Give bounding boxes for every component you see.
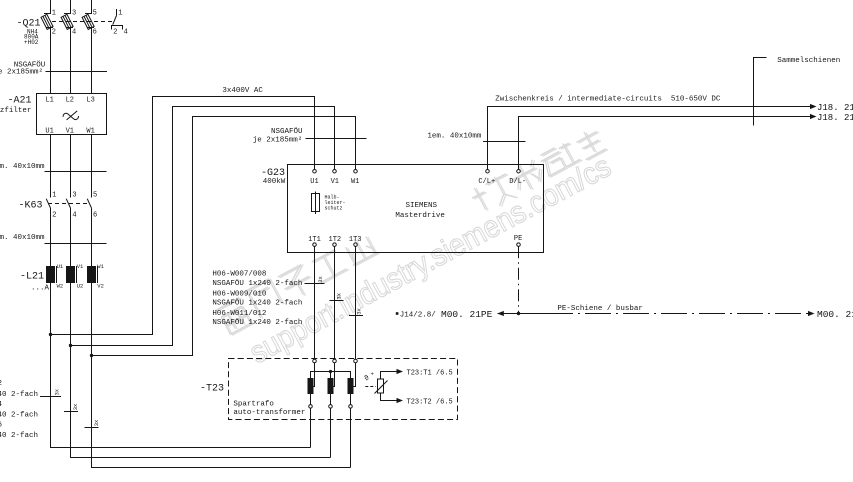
busbar marker 40x10 lower xyxy=(0,234,107,244)
T23 bottom terminal 3 xyxy=(349,405,353,468)
G23 terminal W1 xyxy=(351,169,359,185)
svg-text:1: 1 xyxy=(118,9,122,17)
svg-text:H06-W011/012: H06-W011/012 xyxy=(212,310,266,318)
wire phase L1 top entry xyxy=(50,0,52,14)
wire DC C/L+ to J18 xyxy=(488,107,811,170)
arrow J18 line1 xyxy=(810,104,817,109)
wire L1 down to bottom run xyxy=(51,335,311,448)
svg-text:2: 2 xyxy=(52,212,56,220)
svg-text:W1: W1 xyxy=(86,127,94,135)
wire loop phase 3 xyxy=(92,117,356,356)
cable tick left 2 xyxy=(64,403,79,412)
svg-text:-L21: -L21 xyxy=(20,271,44,282)
Q21 rating label xyxy=(24,29,39,46)
K63 linkage dashed line xyxy=(48,203,89,205)
svg-text:3x: 3x xyxy=(356,307,363,314)
svg-text:3: 3 xyxy=(72,192,76,200)
wire PE to J14 arrow xyxy=(497,311,518,316)
svg-text:Zwischenkreis / intermediate-c: Zwischenkreis / intermediate-circuits 51… xyxy=(495,95,721,103)
wire phase L2 top entry xyxy=(70,0,72,14)
svg-text:4: 4 xyxy=(72,28,76,36)
K63 pin labels xyxy=(52,192,97,220)
transformer T23 dashed box xyxy=(229,359,458,420)
junction node L3 xyxy=(90,354,93,357)
busbar marker DC 40x10 xyxy=(427,133,525,142)
fuse text Halbleiterschutz xyxy=(325,195,346,212)
arrow J18 line2 xyxy=(810,114,817,119)
svg-text:support.industry.siemens.com/c: support.industry.siemens.com/cs xyxy=(244,149,617,371)
wire PE busbar dash-dot xyxy=(519,313,548,315)
G23 terminal D/L- xyxy=(509,169,526,185)
svg-text:400kW: 400kW xyxy=(263,178,286,186)
thermistor bottom lead xyxy=(381,393,404,403)
svg-text:H06-W009/010: H06-W009/010 xyxy=(212,291,267,299)
svg-text:H06-W007/008: H06-W007/008 xyxy=(212,271,266,279)
svg-text:5: 5 xyxy=(93,9,97,17)
T23 top terminal 1 xyxy=(313,359,317,363)
contactor K63 pole 1 xyxy=(46,199,50,266)
wire phase L3 top entry xyxy=(91,0,93,14)
svg-text:auto-transformer: auto-transformer xyxy=(233,409,305,417)
svg-text:4: 4 xyxy=(72,212,76,220)
junction node L1 xyxy=(49,333,52,336)
wire L1 A21 to K63 xyxy=(50,135,52,198)
reactor L21 winding 2 xyxy=(66,266,77,346)
Q21 pin labels xyxy=(52,9,128,36)
label Spartrafo xyxy=(233,401,305,417)
svg-text:H06-W003/004: H06-W003/004 xyxy=(0,401,3,409)
T23 bottom terminal 1 xyxy=(309,405,313,448)
wire 1T3 to T23 xyxy=(355,246,357,359)
fuse-switch Q21 pole 1 xyxy=(41,14,53,94)
G23 terminal U1 xyxy=(310,169,318,185)
svg-text:M00. 21PE: M00. 21PE xyxy=(441,309,493,320)
T23 winding 2 top stub xyxy=(330,372,332,379)
cable label W003/004 clipped xyxy=(0,401,38,419)
svg-text:3x: 3x xyxy=(336,292,343,299)
watermark latin line xyxy=(244,149,617,371)
svg-text:je 2x185mm²: je 2x185mm² xyxy=(0,68,43,77)
T23 top terminal 3 xyxy=(354,359,358,363)
svg-text:+H02: +H02 xyxy=(24,39,39,46)
svg-text:3x: 3x xyxy=(54,388,61,395)
svg-text:J14/2.8/: J14/2.8/ xyxy=(400,311,437,319)
svg-text:H06-W005/006: H06-W005/006 xyxy=(0,422,3,430)
svg-text:Masterdrive: Masterdrive xyxy=(395,212,445,220)
svg-text:1T1: 1T1 xyxy=(308,236,321,244)
svg-text:3x: 3x xyxy=(93,419,100,426)
svg-text:je 2x185mm²: je 2x185mm² xyxy=(253,136,303,145)
junction node L2 xyxy=(69,344,72,347)
contactor K63 pole 3 xyxy=(87,199,91,266)
svg-text:3x400V AC: 3x400V AC xyxy=(222,87,263,95)
svg-text:J18. 21: J18. 21 xyxy=(817,103,853,113)
A21 terminal labels xyxy=(45,96,94,135)
T23 bottom terminal 2 xyxy=(329,405,333,458)
svg-text:1: 1 xyxy=(52,192,56,200)
fuse-switch Q21 pole 3 xyxy=(82,14,94,94)
svg-text:1em. 40x10mm: 1em. 40x10mm xyxy=(427,133,482,141)
svg-text:NSGAFÖU 1x240 2-fach: NSGAFÖU 1x240 2-fach xyxy=(212,299,302,308)
reactor L21 winding 1 xyxy=(46,266,57,335)
cable marker NSGAFOeU je 2x185 mid xyxy=(253,127,367,144)
wire L3 down to bottom run xyxy=(92,356,351,468)
svg-text:1em. 40x10mm: 1em. 40x10mm xyxy=(0,234,45,242)
svg-text:Netzfilter: Netzfilter xyxy=(0,107,31,115)
cable label W001/002 clipped xyxy=(0,380,38,399)
svg-text:2: 2 xyxy=(52,28,56,36)
watermark cjk line xyxy=(214,109,608,350)
svg-text:W2: W2 xyxy=(57,283,64,290)
svg-text:-K63: -K63 xyxy=(19,200,43,211)
svg-text:NSGAFÖU: NSGAFÖU xyxy=(271,127,303,136)
svg-text:Spartrafo: Spartrafo xyxy=(233,401,274,409)
G23 terminal V1 xyxy=(331,169,339,185)
Q21 linkage dashed line xyxy=(52,21,112,23)
svg-text:H06-W001/002: H06-W001/002 xyxy=(0,380,2,388)
svg-text:V1: V1 xyxy=(66,127,74,135)
cable marker NSGAFOeU 2x185 xyxy=(0,60,107,76)
wire DC D/L- to J18 xyxy=(519,117,811,170)
svg-text:Sammelschienen: Sammelschienen xyxy=(777,57,840,65)
svg-text:1em. 40x10mm: 1em. 40x10mm xyxy=(0,163,45,171)
svg-text:V2: V2 xyxy=(97,283,104,290)
cable tick left 1 xyxy=(40,388,61,396)
svg-text:U1: U1 xyxy=(45,127,53,135)
svg-text:NSGAFÖU 1x240 2-fach: NSGAFÖU 1x240 2-fach xyxy=(0,411,38,420)
T23 top terminal 2 xyxy=(333,359,337,363)
G23 terminal PE xyxy=(514,235,522,246)
svg-text:-T23: -T23 xyxy=(200,383,224,394)
svg-text:U2: U2 xyxy=(77,283,84,290)
svg-text:NSGAFÖU 1x240 2-fach: NSGAFÖU 1x240 2-fach xyxy=(212,318,302,327)
svg-text:1T3: 1T3 xyxy=(349,236,362,244)
svg-text:M00. 21: M00. 21 xyxy=(817,309,853,320)
svg-text:1T2: 1T2 xyxy=(329,236,342,244)
cable tick mid 3 xyxy=(349,307,363,315)
svg-text:C/L+: C/L+ xyxy=(478,178,495,186)
svg-text:NSGAFÖU 1x240 2-fach: NSGAFÖU 1x240 2-fach xyxy=(0,390,38,399)
converter G23 box xyxy=(288,165,544,253)
svg-text:4: 4 xyxy=(124,28,128,36)
svg-text:D/L-: D/L- xyxy=(509,178,526,186)
Q21 auxiliary contact xyxy=(112,9,123,30)
G23 semiconductor fuse symbol xyxy=(312,192,320,215)
thermistor body xyxy=(375,379,388,394)
svg-text:W1: W1 xyxy=(97,263,104,270)
arrow M00.21 right xyxy=(808,311,815,316)
cable label W011/012 xyxy=(212,310,302,327)
wire loop phase 1 xyxy=(51,97,315,335)
T23 winding 1 xyxy=(308,363,315,405)
svg-text:V1: V1 xyxy=(77,263,84,270)
cable label W007/008 xyxy=(212,271,302,288)
wire 1T1 to T23 xyxy=(314,246,316,359)
thermistor theta label xyxy=(363,371,373,384)
cable tick left 3 xyxy=(85,419,101,428)
G23 terminal C/L+ xyxy=(478,169,495,185)
svg-text:L2: L2 xyxy=(66,96,74,104)
cable tick mid 2 xyxy=(330,292,344,300)
G23 terminal 1T1 xyxy=(308,236,321,247)
svg-text:V1: V1 xyxy=(331,178,339,186)
junction node PE xyxy=(517,312,520,315)
svg-text:3: 3 xyxy=(72,9,76,17)
cable tick mid 1 xyxy=(305,275,325,283)
junction node rail xyxy=(329,370,332,373)
T23 winding common rail xyxy=(311,372,351,379)
svg-text:J18. 21: J18. 21 xyxy=(817,113,853,123)
svg-text:NSGAFÖU 1x240 2-fach: NSGAFÖU 1x240 2-fach xyxy=(0,431,38,440)
fuse-switch Q21 pole 2 xyxy=(61,14,73,94)
G23 terminal 1T3 xyxy=(349,236,362,247)
svg-text:5: 5 xyxy=(93,192,97,200)
svg-text:U1: U1 xyxy=(310,178,318,186)
cable label W009/010 xyxy=(212,291,302,308)
Sammelschienen bracket xyxy=(754,58,767,126)
G23 terminal 1T2 xyxy=(329,236,342,247)
svg-text:SIEMENS: SIEMENS xyxy=(406,202,438,210)
svg-text:1: 1 xyxy=(52,9,56,17)
T23 winding 2 xyxy=(328,363,335,405)
T23 winding 3 xyxy=(348,363,356,405)
busbar marker 40x10 upper xyxy=(0,163,107,172)
svg-text:T23:T2 /6.5: T23:T2 /6.5 xyxy=(407,399,453,407)
svg-text:L3: L3 xyxy=(86,96,94,104)
line filter A21 box xyxy=(37,94,107,135)
cable label W005/006 clipped xyxy=(0,422,38,440)
wire L2 down to bottom run xyxy=(71,346,331,458)
svg-text:PE-Schiene / busbar: PE-Schiene / busbar xyxy=(557,305,643,313)
svg-text:T23:T1 /6.5: T23:T1 /6.5 xyxy=(407,369,453,377)
svg-text:+: + xyxy=(371,371,374,378)
svg-text:6: 6 xyxy=(93,28,97,36)
svg-text:L1: L1 xyxy=(45,96,53,104)
svg-text:U1: U1 xyxy=(57,263,64,270)
svg-text:NSGAFÖU 1x240 2-fach: NSGAFÖU 1x240 2-fach xyxy=(212,279,302,288)
wire loop phase 2 xyxy=(71,107,335,346)
reactor L21 winding 3 xyxy=(87,266,98,356)
svg-text:3x: 3x xyxy=(317,275,324,282)
svg-text:6: 6 xyxy=(93,212,97,220)
thermistor top lead xyxy=(381,369,404,379)
A21 filter symbol xyxy=(63,111,79,120)
svg-text:...A: ...A xyxy=(31,285,50,293)
contactor K63 pole 2 xyxy=(66,199,70,266)
svg-text:3x: 3x xyxy=(72,403,79,410)
svg-text:2: 2 xyxy=(113,28,117,36)
L21 winding labels xyxy=(57,263,105,290)
wire 1T2 to T23 xyxy=(334,246,336,359)
wire L2 A21 to K63 xyxy=(70,135,72,198)
label SIEMENS Masterdrive xyxy=(395,202,445,220)
svg-text:PE: PE xyxy=(514,235,522,243)
svg-text:W1: W1 xyxy=(351,178,359,186)
svg-text:-A21: -A21 xyxy=(8,96,32,107)
wire PE dash-dot xyxy=(518,246,520,313)
svg-text:schutz: schutz xyxy=(325,206,343,212)
label J14/2.8 xyxy=(396,311,437,319)
thermistor dashes xyxy=(365,386,376,388)
wire L3 A21 to K63 xyxy=(91,135,93,198)
